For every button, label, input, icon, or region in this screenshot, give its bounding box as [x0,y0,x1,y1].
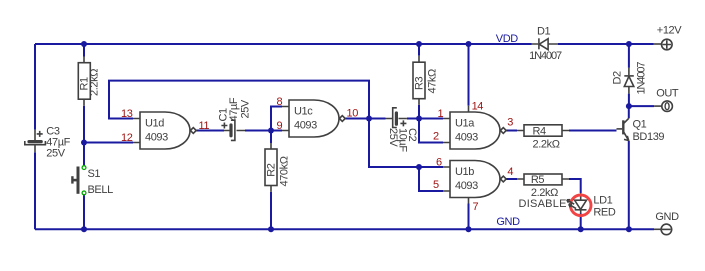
resistor R3 [413,56,438,105]
wire U1b pin 7 to GND [468,204,470,230]
wire VDD top rail left section [35,43,532,45]
svg-text:13: 13 [121,108,133,120]
svg-text:BELL: BELL [88,184,114,196]
svg-text:D2: D2 [612,71,624,85]
wire R4 to Q1 base [569,130,617,132]
wire R3 bottom to node [418,105,420,119]
wire Q1 emitter to GND rail [628,141,630,230]
svg-text:GND: GND [655,211,679,223]
net label VDD [496,33,518,45]
svg-text:R2: R2 [265,163,277,177]
pin number 4 [507,166,513,178]
wire OUT node to terminal [629,105,654,107]
wire node to U1a pin 1 [419,118,443,120]
wire branch to U1b inputs [369,119,419,168]
svg-text:4093: 4093 [294,119,317,131]
pin number 6 [436,157,442,169]
diode D2 [612,62,648,95]
svg-text:25V: 25V [240,99,252,118]
wire node to U1d pin 12 [84,142,133,144]
svg-text:U1c: U1c [294,105,313,117]
wire D2 top riser [628,44,630,68]
svg-text:U1b: U1b [455,166,474,178]
svg-text:1N4007: 1N4007 [529,50,562,62]
svg-text:8: 8 [277,96,283,108]
wire LED bottom to GND rail [580,214,582,230]
svg-text:11: 11 [199,120,210,132]
wire node to R2 top [270,131,272,144]
wire U1a pin 14 to VDD [468,44,470,106]
svg-text:R5: R5 [531,174,545,186]
wire R5 to LED top [569,179,581,193]
wire U1b output to R5 [506,178,517,180]
capacitor C3 [25,125,71,159]
label DISABLE [519,198,567,210]
wire C2 to node R3 [407,118,419,120]
wire R1 bottom to node [83,106,85,143]
capacitor C2 [386,108,419,153]
svg-text:OUT: OUT [656,88,679,100]
svg-text:BD139: BD139 [633,131,665,143]
svg-text:9: 9 [277,120,283,132]
pin number 9 [277,120,283,132]
wire node to U1a pin 2 [419,119,443,143]
transistor Q1 [617,118,665,143]
junction top rail at R1 [81,41,87,47]
svg-text:U1a: U1a [455,117,475,129]
wire node to U1b pin 6 [419,166,443,168]
pin number 13 [121,108,133,120]
svg-text:47kΩ: 47kΩ [426,69,438,94]
wire U1d output to C1 [197,130,225,132]
svg-text:4093: 4093 [145,131,168,143]
resistor R4 [517,125,569,151]
pin number 11 [199,120,210,132]
svg-text:+12V: +12V [657,25,682,37]
wire node to S1 top [83,143,85,166]
svg-text:D1: D1 [537,26,551,38]
NAND gate U1d [133,112,196,149]
svg-text:10: 10 [347,108,359,120]
wire VDD top rail right section [558,43,654,45]
junction top rail at pin14 [466,41,472,47]
resistor R5 [517,174,569,199]
pin number 3 [507,117,513,129]
svg-text:Q1: Q1 [633,118,647,130]
svg-text:6: 6 [436,157,442,169]
svg-text:7: 7 [473,201,479,213]
wire left rail upper (VDD to C3) [34,44,36,130]
junction pin6 branch [416,164,422,170]
pin number 10 [347,108,359,120]
NAND gate U1a [443,106,506,149]
resistor R1 [78,57,100,106]
junction GND rail at R2 [268,226,274,232]
svg-text:47µF: 47µF [228,97,240,121]
junction top rail at D2 [626,41,632,47]
svg-text:3: 3 [507,117,513,129]
svg-text:2.2kΩ: 2.2kΩ [89,69,101,96]
pin number 1 [438,108,444,120]
junction GND rail at S1 [81,226,87,232]
svg-text:LD1: LD1 [593,195,612,207]
diode D1 [529,26,562,62]
wire Q1 collector riser [628,106,630,118]
svg-text:4093: 4093 [455,131,478,143]
junction GND rail at pin7 [466,226,472,232]
terminal OUT [654,88,679,112]
svg-text:1N4007: 1N4007 [636,62,648,95]
svg-text:2: 2 [433,131,439,143]
pin number 14 [472,101,484,113]
wire D2 bottom to OUT node [628,94,630,107]
pin number 12 [121,132,133,144]
wire node to U1c pin 8 riser [271,107,282,131]
svg-text:DISABLE: DISABLE [519,198,567,210]
pin number 5 [433,179,439,191]
wire node to U1b pin 5 [419,167,443,191]
junction top rail at R3 [416,41,422,47]
svg-text:25V: 25V [46,147,65,159]
NAND gate U1b [443,161,506,204]
svg-text:R4: R4 [533,125,547,137]
LED LD1 [567,193,616,218]
wire R1 top [83,44,85,57]
resistor R2 [265,143,290,192]
svg-text:1: 1 [438,108,444,120]
svg-text:R3: R3 [413,76,425,90]
terminal +12V [654,25,682,50]
wire R2 bottom to GND rail [270,192,272,229]
svg-text:VDD: VDD [496,33,518,45]
svg-text:4093: 4093 [455,180,478,192]
svg-text:S1: S1 [88,168,101,180]
wire node to C2 [369,118,386,120]
junction U1c output node [366,116,372,122]
wire GND bottom rail [35,228,654,230]
wire S1 bottom to GND rail [83,195,85,229]
svg-text:14: 14 [472,101,484,113]
junction GND rail at Q1 emitter [626,226,632,232]
svg-text:12: 12 [121,132,133,144]
svg-text:RED: RED [593,206,615,218]
pin number 2 [433,131,439,143]
svg-text:2.2kΩ: 2.2kΩ [533,139,560,151]
wire R3 top to VDD [418,44,420,56]
NAND gate U1c [282,100,345,137]
junction R1/S1/pin12 [81,140,87,146]
svg-text:470kΩ: 470kΩ [278,156,290,186]
wire C1 to node pin9 [245,130,282,132]
wire U1a output to R4 [506,130,517,132]
wire U1d pin 13 feedback [109,81,369,119]
junction D2/OUT/collector [626,103,632,109]
svg-text:4: 4 [507,166,513,178]
junction C1/R2/pin9 [268,128,274,134]
svg-text:U1d: U1d [145,117,164,129]
wire U1c output to node [346,118,370,120]
pin number 8 [277,96,283,108]
svg-text:5: 5 [433,179,439,191]
junction GND rail at LED [578,226,584,232]
wire left rail lower (C3 to GND) [34,152,36,229]
terminal GND right [654,211,679,235]
net label GND [496,216,520,228]
junction R3/C2/pin1 [416,116,422,122]
capacitor C1 [218,97,252,140]
pin number 7 [473,201,479,213]
switch S1 [72,166,113,196]
svg-text:GND: GND [496,216,520,228]
svg-text:25V: 25V [387,128,399,147]
